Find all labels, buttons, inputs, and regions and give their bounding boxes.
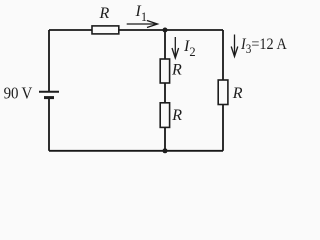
svg-text:R: R (232, 85, 243, 102)
wire right vertical (222, 30, 224, 151)
svg-text:90 V: 90 V (4, 84, 33, 103)
battery 90 V (long plus plate) (39, 91, 59, 93)
svg-text:I2: I2 (183, 38, 196, 59)
wire bottom (left corner to right corner) (49, 150, 223, 152)
resistor R4 (right branch) (218, 80, 228, 105)
svg-text:I3=12 A: I3=12 A (240, 36, 287, 56)
resistor R2 (middle branch upper) (160, 59, 169, 83)
node junction top (163, 28, 168, 33)
current arrow I3 (downward) (231, 35, 238, 57)
current arrow I1 (rightward) (127, 21, 158, 28)
node junction bottom (163, 148, 168, 153)
svg-text:R: R (171, 62, 182, 79)
wire middle vertical (164, 30, 166, 151)
svg-text:R: R (171, 107, 182, 124)
resistor R1 (top horizontal) (92, 26, 119, 34)
resistor R3 (middle branch lower) (160, 103, 169, 128)
svg-text:I1: I1 (135, 3, 148, 24)
wire left vertical upper (top corner to battery +) (48, 30, 50, 91)
wire top (from left corner to right corner) (49, 29, 223, 31)
current arrow I2 (downward) (172, 37, 179, 58)
wire left vertical lower (battery - to bottom corner) (48, 98, 50, 151)
battery 90 V (short minus plate) (44, 96, 54, 99)
svg-text:R: R (99, 5, 110, 22)
